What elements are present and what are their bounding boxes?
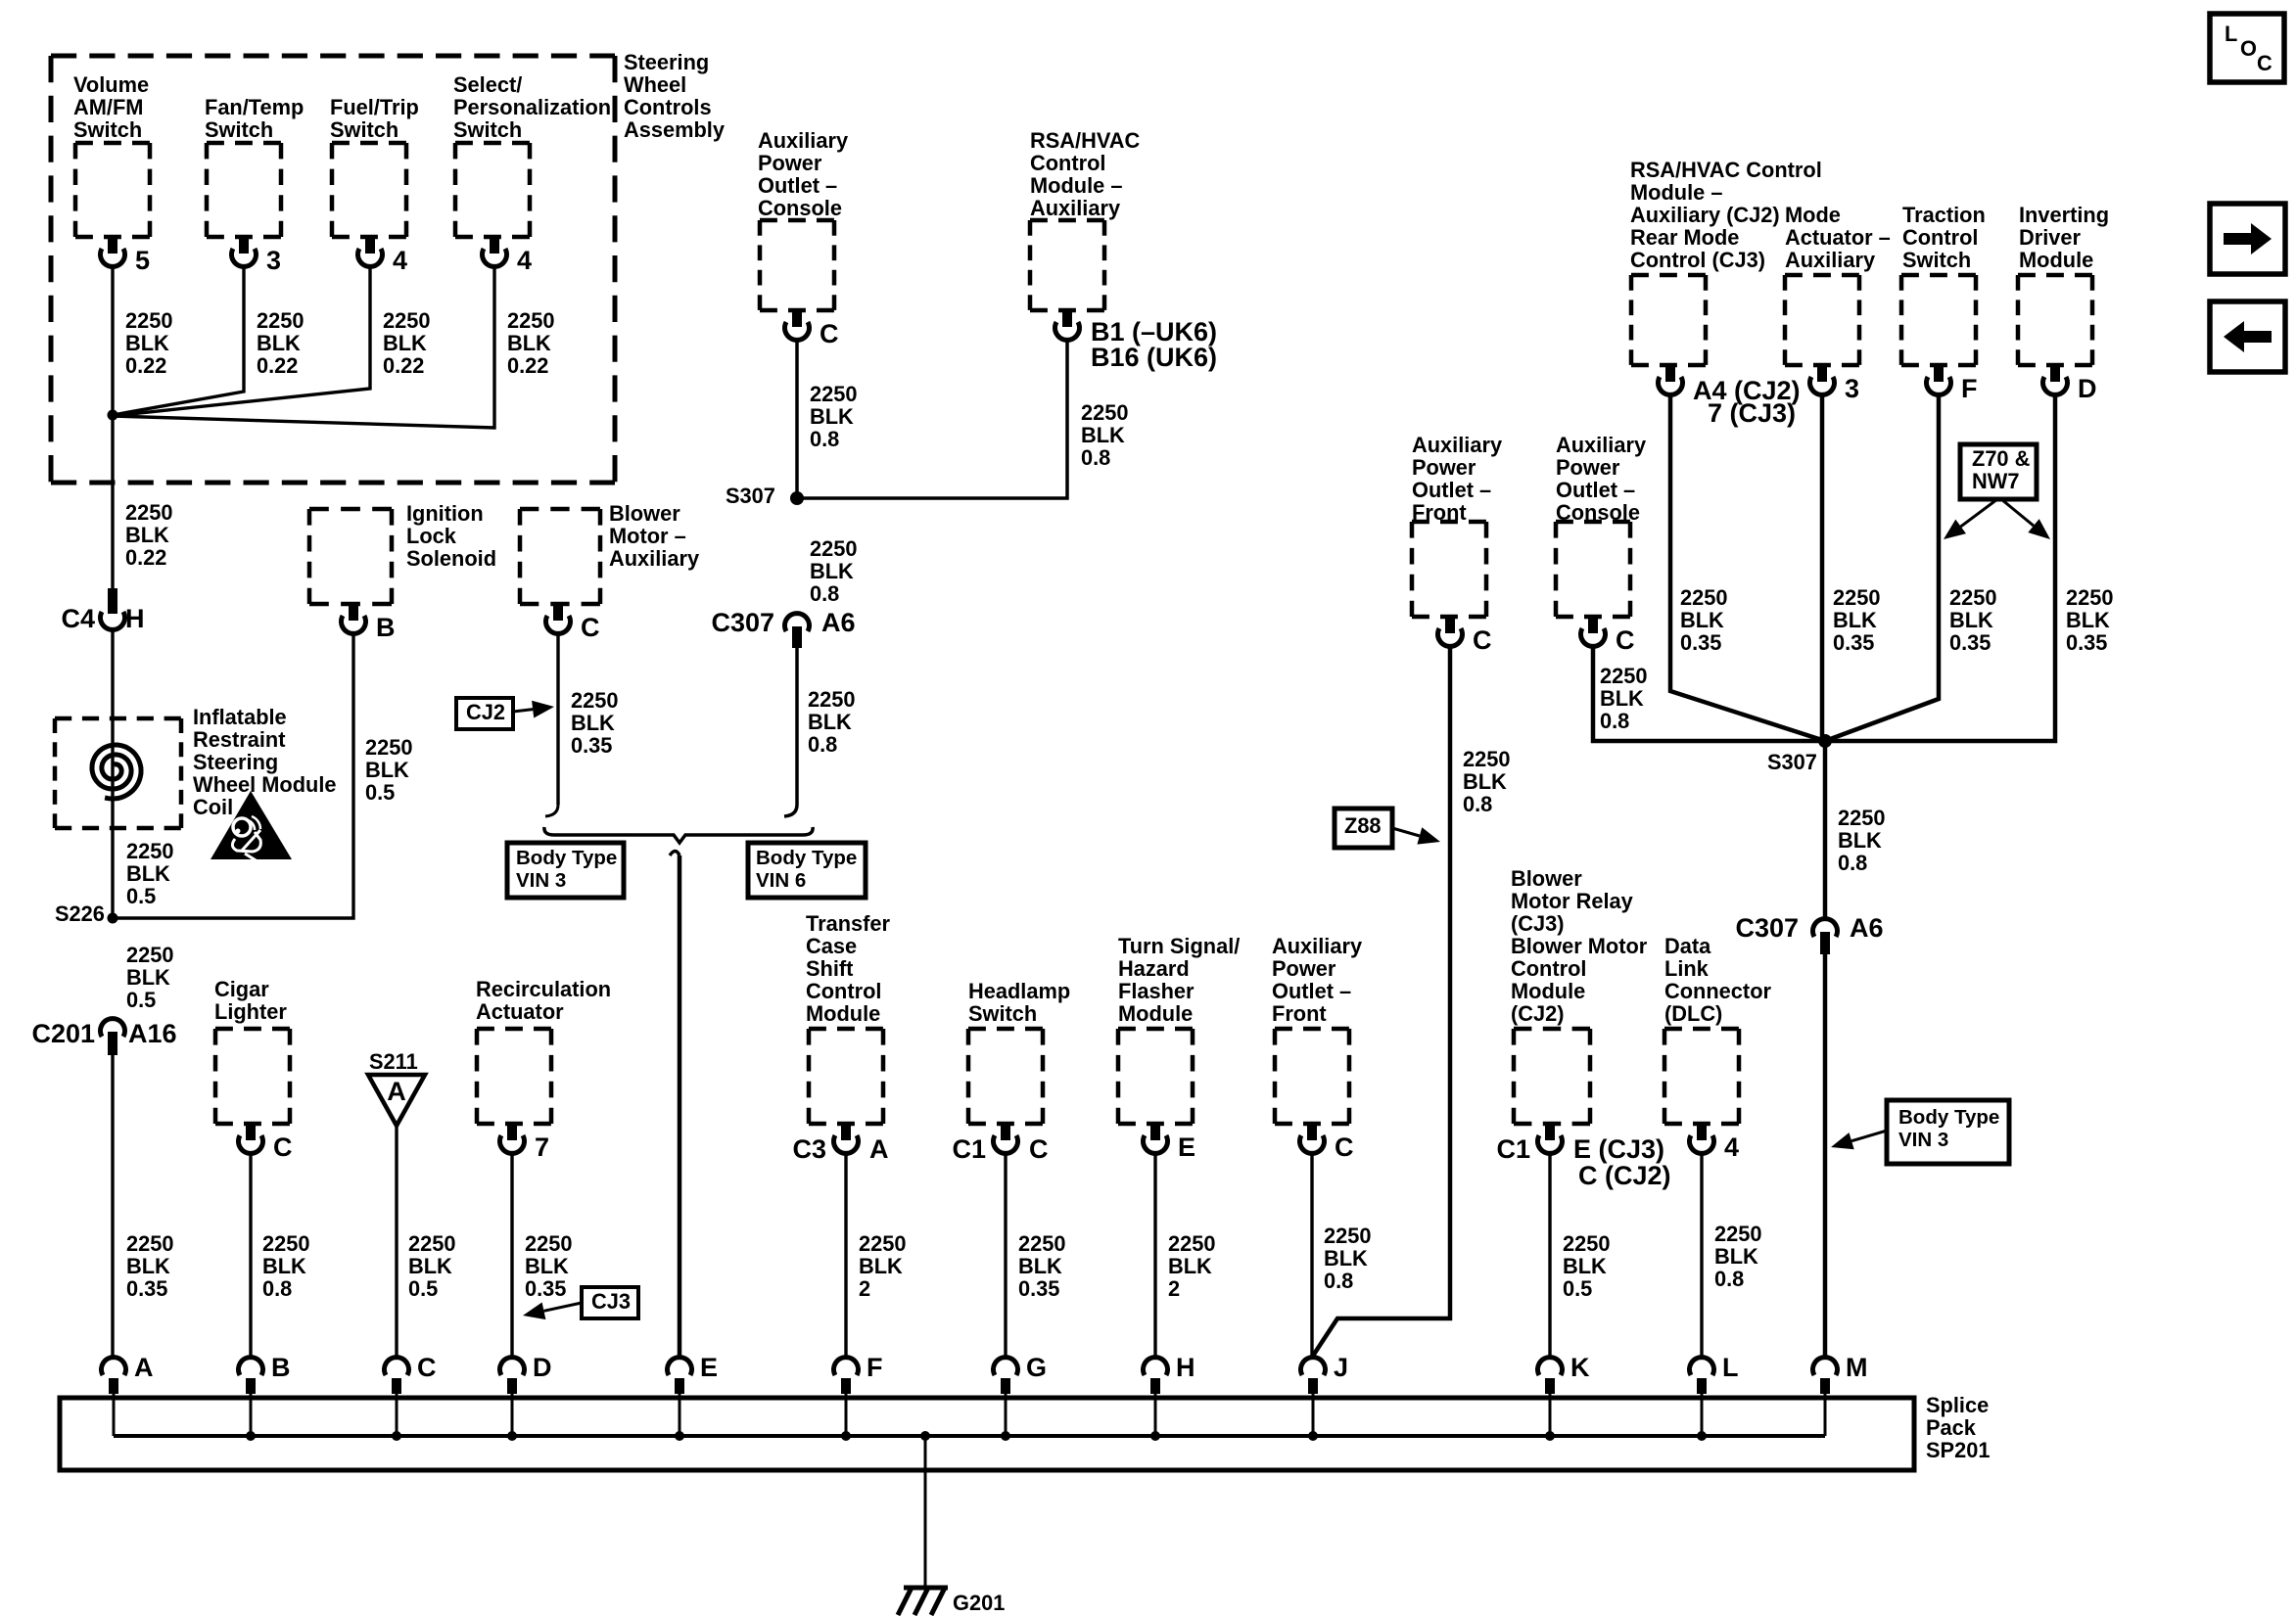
svg-text:Module: Module: [806, 1001, 880, 1026]
svg-text:Select/: Select/: [453, 72, 522, 97]
wire: mode actuator column to S307 right: [1820, 394, 1825, 741]
svg-text:Link: Link: [1664, 956, 1710, 981]
svg-text:C3: C3: [792, 1134, 826, 1164]
svg-text:2250: 2250: [1081, 400, 1129, 425]
component: Headlamp Switch dashed box: [968, 1029, 1043, 1124]
svg-text:4: 4: [1724, 1132, 1739, 1162]
svg-text:A: A: [134, 1353, 154, 1382]
svg-text:C1: C1: [1496, 1134, 1530, 1164]
svg-text:0.35: 0.35: [1833, 630, 1874, 655]
forward arrow icon box: [2210, 204, 2285, 274]
svg-text:C4: C4: [61, 604, 95, 633]
svg-text:BLK: BLK: [1324, 1246, 1368, 1270]
svg-text:2250: 2250: [1949, 585, 1997, 610]
svg-text:Personalization: Personalization: [453, 95, 611, 119]
svg-text:2250: 2250: [383, 308, 431, 333]
splice pack connector pin L: [1690, 1358, 1714, 1375]
svg-text:Auxiliary (CJ2): Auxiliary (CJ2): [1630, 203, 1780, 227]
svg-text:Switch: Switch: [330, 117, 398, 142]
svg-text:S307: S307: [1767, 750, 1817, 774]
svg-text:2250: 2250: [1600, 664, 1648, 688]
svg-text:C: C: [1616, 625, 1635, 655]
wire: C307 down to body-type branch (VIN 6): [795, 648, 799, 805]
svg-text:0.8: 0.8: [1600, 709, 1629, 733]
callout CJ2 with arrow: [456, 698, 513, 729]
svg-text:7: 7: [535, 1132, 549, 1162]
connector pins B1/B16 of RSA/HVAC control module: [1062, 310, 1072, 327]
in-line connector C307 pin A6 (left): [785, 614, 810, 631]
svg-text:2250: 2250: [2066, 585, 2114, 610]
component: Select/ Personalization Switch dashed box: [455, 143, 530, 237]
svg-text:0.8: 0.8: [810, 427, 839, 451]
splice S307 (left): [790, 491, 804, 505]
svg-text:Auxiliary: Auxiliary: [1030, 196, 1120, 220]
svg-text:G201: G201: [953, 1591, 1005, 1615]
wire: front outlet to splice pack pin J: [1310, 1153, 1313, 1359]
wire: traction column to S307 right: [1825, 394, 1939, 741]
connector pin D of inverting driver module: [2050, 365, 2060, 382]
svg-text:Controls: Controls: [624, 95, 712, 119]
svg-text:2250: 2250: [1563, 1231, 1611, 1256]
svg-text:E (CJ3): E (CJ3): [1573, 1134, 1664, 1164]
svg-text:0.5: 0.5: [126, 884, 156, 908]
wire: blower motor relay to splice pack pin K: [1548, 1153, 1551, 1359]
svg-text:4: 4: [517, 246, 532, 275]
wire: junction down to C4: [111, 415, 114, 588]
svg-text:VIN 3: VIN 3: [1898, 1129, 1948, 1151]
component: Blower Motor Relay / Blower Motor Control Module dashed box: [1514, 1029, 1590, 1124]
svg-text:Control: Control: [1511, 956, 1586, 981]
svg-text:7 (CJ3): 7 (CJ3): [1708, 398, 1796, 428]
svg-text:BLK: BLK: [383, 331, 427, 355]
svg-text:2250: 2250: [810, 382, 858, 406]
svg-text:5: 5: [135, 246, 150, 275]
svg-text:BLK: BLK: [1081, 423, 1125, 447]
svg-text:Volume: Volume: [73, 72, 149, 97]
svg-text:BLK: BLK: [1168, 1254, 1212, 1278]
svg-text:0.35: 0.35: [1018, 1276, 1059, 1301]
svg-text:0.35: 0.35: [126, 1276, 167, 1301]
svg-text:Turn Signal/: Turn Signal/: [1118, 934, 1240, 958]
svg-text:Case: Case: [806, 934, 857, 958]
component: Auxiliary Power Outlet - Console dashed box (right): [1556, 522, 1630, 617]
svg-text:Module –: Module –: [1030, 173, 1122, 198]
svg-text:Control (CJ3): Control (CJ3): [1630, 248, 1765, 272]
connector pin 7 of recirculation actuator: [507, 1124, 517, 1140]
svg-text:2250: 2250: [126, 839, 174, 863]
svg-text:0.5: 0.5: [365, 780, 395, 805]
svg-text:Lock: Lock: [406, 524, 457, 548]
wire: headlamp switch to splice pack pin G: [1004, 1153, 1007, 1359]
in-line connector C307 pin A6 (right): [1813, 919, 1838, 937]
svg-text:0.35: 0.35: [2066, 630, 2107, 655]
wire: DLC to splice pack pin L: [1700, 1153, 1703, 1359]
svg-text:Outlet –: Outlet –: [758, 173, 837, 198]
svg-text:C: C: [417, 1353, 437, 1382]
svg-text:AM/FM: AM/FM: [73, 95, 143, 119]
svg-text:Auxiliary: Auxiliary: [1556, 433, 1646, 457]
svg-text:C (CJ2): C (CJ2): [1578, 1161, 1671, 1190]
callout CJ3 with arrow: [582, 1287, 638, 1318]
svg-text:2250: 2250: [262, 1231, 310, 1256]
connector pin 5 of Volume AM/FM Switch: [108, 237, 117, 254]
svg-text:H: H: [1176, 1353, 1195, 1382]
svg-text:BLK: BLK: [571, 711, 615, 735]
svg-text:G: G: [1026, 1353, 1047, 1382]
svg-text:2250: 2250: [125, 308, 173, 333]
svg-text:0.5: 0.5: [408, 1276, 438, 1301]
svg-text:Module: Module: [1511, 979, 1585, 1003]
wire: cigar lighter to splice pack pin B: [249, 1153, 252, 1359]
svg-text:Pack: Pack: [1926, 1415, 1977, 1440]
svg-text:Switch: Switch: [453, 117, 522, 142]
svg-text:J: J: [1334, 1353, 1348, 1382]
svg-text:Connector: Connector: [1664, 979, 1772, 1003]
svg-text:Inverting: Inverting: [2019, 203, 2109, 227]
connector pin F of traction control switch: [1934, 365, 1944, 382]
svg-text:BLK: BLK: [2066, 608, 2110, 632]
wire: fan/temp switch to junction: [113, 266, 244, 415]
component: Traction Control Switch dashed box: [1901, 275, 1976, 365]
svg-text:BLK: BLK: [126, 965, 170, 990]
svg-text:BLK: BLK: [262, 1254, 306, 1278]
svg-text:Module: Module: [2019, 248, 2093, 272]
svg-text:0.8: 0.8: [1081, 445, 1110, 470]
svg-text:BLK: BLK: [1680, 608, 1724, 632]
svg-text:Power: Power: [1272, 956, 1336, 981]
svg-text:Control: Control: [1030, 151, 1105, 175]
svg-text:A6: A6: [1850, 913, 1884, 943]
wire: S307 right down to C307: [1823, 741, 1828, 920]
svg-text:Power: Power: [1412, 455, 1476, 480]
svg-text:A16: A16: [128, 1019, 177, 1048]
svg-text:3: 3: [1845, 374, 1859, 403]
splice pack connector pin B: [238, 1358, 262, 1375]
svg-text:2: 2: [1168, 1276, 1180, 1301]
connector pin C of aux power outlet console (right): [1588, 617, 1598, 633]
svg-text:BLK: BLK: [365, 758, 409, 782]
svg-text:C307: C307: [711, 608, 774, 637]
svg-text:BLK: BLK: [125, 523, 169, 547]
connector pin 4 of Fuel/Trip Switch: [365, 237, 375, 254]
wire: A4 column to S307 right: [1670, 394, 1825, 741]
component: Auxiliary Power Outlet - Front dashed box (right): [1412, 522, 1486, 617]
svg-text:C307: C307: [1735, 913, 1799, 943]
svg-text:Blower: Blower: [1511, 866, 1582, 891]
component: Ignition Lock Solenoid dashed box: [309, 509, 392, 604]
svg-text:Auxiliary: Auxiliary: [609, 546, 699, 571]
svg-text:(CJ2): (CJ2): [1511, 1001, 1565, 1026]
svg-text:BLK: BLK: [257, 331, 301, 355]
svg-text:Shift: Shift: [806, 956, 853, 981]
svg-text:Z88: Z88: [1344, 813, 1382, 838]
svg-text:0.8: 0.8: [262, 1276, 292, 1301]
svg-text:CJ2: CJ2: [466, 700, 505, 724]
svg-text:BLK: BLK: [810, 559, 854, 583]
connector pin 4 of Select/ Personalization Switch: [490, 237, 499, 254]
callout box Z70 & NW7 with arrows: [1960, 444, 2037, 499]
svg-text:Console: Console: [1556, 500, 1640, 525]
splice pack connector pin C: [385, 1358, 409, 1375]
callout Z88 with arrow: [1335, 808, 1392, 848]
svg-text:S211: S211: [369, 1049, 418, 1074]
connector pin 3 of Fan/Temp Switch: [239, 237, 249, 254]
svg-text:C: C: [581, 613, 600, 642]
splice S307 (right): [1818, 734, 1832, 748]
wire: body-type branch down to splice pack pin E: [670, 852, 679, 856]
svg-text:Switch: Switch: [205, 117, 273, 142]
connector pin E of turn signal/hazard flasher module: [1150, 1124, 1160, 1140]
svg-text:2250: 2250: [808, 687, 856, 712]
svg-text:Outlet –: Outlet –: [1556, 478, 1635, 502]
component: RSA/HVAC Control Module - Auxiliary dashed box: [1030, 220, 1104, 310]
svg-text:2: 2: [859, 1276, 870, 1301]
connector pin 3 of mode actuator: [1817, 365, 1827, 382]
svg-text:C: C: [273, 1132, 293, 1162]
wire: flasher module to splice pack pin H: [1153, 1153, 1156, 1359]
wire: fuel/trip switch to junction: [113, 266, 370, 416]
svg-text:Motor –: Motor –: [609, 524, 686, 548]
svg-text:A: A: [387, 1077, 406, 1106]
svg-text:BLK: BLK: [125, 331, 169, 355]
wire: select switch to junction: [113, 266, 494, 428]
svg-text:Z70 &: Z70 &: [1972, 446, 2031, 471]
svg-text:BLK: BLK: [1463, 769, 1507, 794]
connector C3 pin A of transfer case shift control module: [841, 1124, 851, 1140]
svg-text:Auxiliary: Auxiliary: [1785, 248, 1875, 272]
component: Blower Motor - Auxiliary dashed box: [520, 509, 600, 604]
svg-text:Power: Power: [758, 151, 822, 175]
wire: C4 down into coil: [111, 629, 114, 918]
svg-text:Flasher: Flasher: [1118, 979, 1195, 1003]
svg-text:BLK: BLK: [1018, 1254, 1062, 1278]
svg-text:(CJ3): (CJ3): [1511, 911, 1565, 936]
svg-text:0.22: 0.22: [507, 353, 548, 378]
svg-text:S307: S307: [726, 484, 775, 508]
svg-text:0.22: 0.22: [257, 353, 298, 378]
svg-text:0.8: 0.8: [1324, 1269, 1353, 1293]
wire: console right to S307 right horizontal: [1593, 646, 1825, 741]
connector C1 pins E/C of blower motor relay: [1545, 1124, 1555, 1140]
svg-text:Splice: Splice: [1926, 1393, 1989, 1417]
svg-text:NW7: NW7: [1972, 469, 2019, 493]
svg-text:C: C: [1029, 1134, 1049, 1164]
splice pack connector pin E: [668, 1358, 692, 1375]
svg-text:CJ3: CJ3: [591, 1289, 631, 1314]
component: Volume AM/FM Switch dashed box: [75, 143, 150, 237]
splice pack connector pin D: [499, 1358, 524, 1375]
svg-text:BLK: BLK: [808, 710, 852, 734]
connector pin C of aux power outlet front (right): [1445, 617, 1455, 633]
component: Auxiliary Power Outlet - Front dashed box (bottom): [1275, 1029, 1349, 1124]
svg-text:Lighter: Lighter: [214, 999, 287, 1024]
svg-text:2250: 2250: [257, 308, 305, 333]
svg-text:Switch: Switch: [968, 1001, 1037, 1026]
svg-text:VIN 6: VIN 6: [756, 869, 806, 892]
svg-text:Body Type: Body Type: [756, 847, 857, 869]
svg-text:Motor Relay: Motor Relay: [1511, 889, 1633, 913]
svg-text:L: L: [1722, 1353, 1739, 1382]
svg-text:2250: 2250: [571, 688, 619, 713]
svg-text:Actuator: Actuator: [476, 999, 564, 1024]
connector pin 4 of data link connector: [1697, 1124, 1707, 1140]
svg-text:Front: Front: [1412, 500, 1467, 525]
svg-text:0.35: 0.35: [571, 733, 612, 758]
wire: console outlet to S307: [795, 340, 799, 498]
svg-text:Steering: Steering: [193, 750, 278, 774]
svg-text:BLK: BLK: [859, 1254, 903, 1278]
svg-text:2250: 2250: [365, 735, 413, 760]
back arrow icon box: [2210, 301, 2285, 372]
svg-text:0.8: 0.8: [1714, 1267, 1744, 1291]
svg-text:0.22: 0.22: [125, 353, 166, 378]
connector pin C of aux power outlet console (top): [792, 310, 802, 327]
svg-text:Switch: Switch: [1902, 248, 1971, 272]
component: Cigar Lighter dashed box: [215, 1029, 290, 1124]
svg-text:0.35: 0.35: [1949, 630, 1991, 655]
svg-text:Body Type: Body Type: [1898, 1106, 1999, 1129]
callout box: Body Type VIN 3 (right) with arrow: [1887, 1100, 2009, 1164]
callout box: Body Type VIN 6 (center): [748, 843, 866, 898]
svg-text:2250: 2250: [126, 943, 174, 967]
steering wheel controls assembly dashed enclosure: [51, 56, 615, 483]
svg-text:Data: Data: [1664, 934, 1711, 958]
svg-text:2250: 2250: [810, 536, 858, 561]
coil spiral symbol: [92, 745, 141, 799]
svg-text:2250: 2250: [408, 1231, 456, 1256]
svg-text:3: 3: [266, 246, 281, 275]
component: Inflatable Restraint Steering Wheel Module Coil dashed box: [55, 718, 181, 828]
splice pack connector pin G: [994, 1358, 1018, 1375]
svg-text:0.8: 0.8: [810, 581, 839, 606]
component: Recirculation Actuator dashed box: [477, 1029, 551, 1124]
in-line connector C4 pin H: [108, 588, 117, 614]
svg-text:2250: 2250: [1463, 747, 1511, 771]
wire: RSA/HVAC module to S307: [797, 340, 1067, 498]
svg-text:2250: 2250: [507, 308, 555, 333]
svg-text:2250: 2250: [1838, 806, 1886, 830]
svg-text:B: B: [271, 1353, 291, 1382]
svg-text:0.22: 0.22: [383, 353, 424, 378]
connector pin C of aux power outlet front (bottom): [1307, 1124, 1317, 1140]
splice pack connector pin F: [834, 1358, 859, 1375]
svg-text:Front: Front: [1272, 1001, 1327, 1026]
svg-text:Wheel Module: Wheel Module: [193, 772, 337, 797]
splice pack connector pin K: [1538, 1358, 1563, 1375]
svg-text:BLK: BLK: [525, 1254, 569, 1278]
junction of switch grounds: [108, 410, 118, 421]
wire: front outlet right down and jog to splice pack pin J: [1313, 646, 1450, 1356]
wire: inverting column to S307 right: [1825, 394, 2055, 741]
wire: C201 down to splice pack pin A: [111, 1055, 114, 1359]
component: Auxiliary Power Outlet - Console dashed box (top): [760, 220, 834, 310]
svg-text:A6: A6: [821, 608, 856, 637]
connector C1 pin C of headlamp switch: [1001, 1124, 1010, 1140]
body-type selection brace: [544, 827, 813, 843]
svg-text:(DLC): (DLC): [1664, 1001, 1722, 1026]
svg-text:2250: 2250: [1018, 1231, 1066, 1256]
svg-text:0.5: 0.5: [126, 988, 156, 1012]
svg-text:H: H: [125, 604, 145, 633]
svg-text:Mode: Mode: [1785, 203, 1841, 227]
component: Transfer Case Shift Control Module dashed box: [809, 1029, 883, 1124]
wire: S211 to splice pack pin C: [395, 1126, 398, 1359]
svg-text:S226: S226: [55, 901, 105, 926]
splice pack connector pin M: [1813, 1358, 1838, 1375]
svg-text:B: B: [376, 613, 396, 642]
svg-text:Body Type: Body Type: [516, 847, 617, 869]
svg-text:Auxiliary: Auxiliary: [1412, 433, 1502, 457]
svg-text:4: 4: [393, 246, 407, 275]
svg-text:Switch: Switch: [73, 117, 142, 142]
svg-text:VIN 3: VIN 3: [516, 869, 566, 892]
svg-text:C: C: [2257, 51, 2273, 75]
svg-text:2250: 2250: [1324, 1224, 1372, 1248]
svg-text:Traction: Traction: [1902, 203, 1986, 227]
component: Fan/Temp Switch dashed box: [207, 143, 281, 237]
svg-text:Blower: Blower: [609, 501, 680, 526]
svg-text:Ignition: Ignition: [406, 501, 484, 526]
component: Mode Actuator - Auxiliary dashed box: [1785, 275, 1859, 365]
svg-text:Inflatable: Inflatable: [193, 705, 287, 729]
svg-text:D: D: [533, 1353, 552, 1382]
svg-text:BLK: BLK: [1600, 686, 1644, 711]
svg-text:Console: Console: [758, 196, 842, 220]
svg-text:BLK: BLK: [1949, 608, 1993, 632]
svg-text:Wheel: Wheel: [624, 72, 686, 97]
in-line connector C201 pin A16: [100, 1019, 124, 1037]
svg-text:Outlet –: Outlet –: [1412, 478, 1491, 502]
svg-text:Coil: Coil: [193, 795, 233, 819]
svg-text:Power: Power: [1556, 455, 1620, 480]
component: Fuel/Trip Switch dashed box: [332, 143, 406, 237]
connector pin C of blower motor auxiliary: [553, 604, 563, 621]
svg-text:Driver: Driver: [2019, 225, 2082, 250]
svg-text:F: F: [1961, 374, 1978, 403]
wire: S226 branch to ignition lock solenoid: [113, 632, 353, 918]
svg-text:Outlet –: Outlet –: [1272, 979, 1351, 1003]
LOC reference icon box: [2210, 14, 2284, 82]
svg-text:BLK: BLK: [1833, 608, 1877, 632]
splice pack internal bus: [114, 1434, 1825, 1438]
svg-text:2250: 2250: [525, 1231, 573, 1256]
svg-text:BLK: BLK: [1714, 1244, 1758, 1269]
svg-text:Transfer: Transfer: [806, 911, 891, 936]
component: Inverting Driver Module dashed box: [2018, 275, 2092, 365]
svg-text:C: C: [820, 319, 839, 348]
ground symbol G201: [898, 1588, 948, 1615]
svg-text:2250: 2250: [1168, 1231, 1216, 1256]
svg-text:Assembly: Assembly: [624, 117, 725, 142]
svg-text:2250: 2250: [859, 1231, 907, 1256]
airbag warning triangle icon: [211, 791, 292, 859]
svg-text:C201: C201: [31, 1019, 95, 1048]
connector pin C of cigar lighter: [246, 1124, 256, 1140]
wire: volume switch down to junction: [111, 266, 114, 415]
splice pack SP201 outline: [60, 1398, 1914, 1470]
svg-text:B16 (UK6): B16 (UK6): [1091, 343, 1217, 372]
svg-text:RSA/HVAC Control: RSA/HVAC Control: [1630, 158, 1822, 182]
svg-text:O: O: [2240, 36, 2257, 61]
svg-text:Fan/Temp: Fan/Temp: [205, 95, 304, 119]
svg-text:Blower Motor: Blower Motor: [1511, 934, 1648, 958]
svg-text:0.5: 0.5: [1563, 1276, 1592, 1301]
wire: recirculation actuator to splice pack pin D: [510, 1153, 513, 1359]
svg-text:Module: Module: [1118, 1001, 1193, 1026]
splice pack connector pin A: [102, 1358, 126, 1375]
svg-text:M: M: [1846, 1353, 1868, 1382]
svg-text:Auxiliary: Auxiliary: [758, 128, 848, 153]
